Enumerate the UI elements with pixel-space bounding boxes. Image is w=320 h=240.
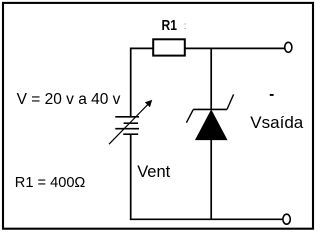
wire: left vertical from top corner down to battery + plate <box>130 48 132 117</box>
svg-text::: : <box>184 21 187 32</box>
svg-text:V = 20 v a 40 v: V = 20 v a 40 v <box>17 91 121 108</box>
terminal: output - (open circle, bottom right) <box>283 214 290 224</box>
wire: zener branch vertical from top wire down to cathode <box>210 48 212 110</box>
battery V (variable DC source, four plates) <box>115 117 139 134</box>
minus dash above Vsaida <box>270 94 274 96</box>
wire: zener branch vertical from anode down to bottom wire <box>210 140 212 220</box>
svg-text:R1: R1 <box>162 17 177 34</box>
wire: top-left segment from corner node to R1 left pin <box>130 47 154 49</box>
variable-source diagonal arrow <box>109 100 152 144</box>
wire: left vertical from battery - plate down to bottom corner <box>130 134 132 220</box>
zener diode D1 (cathode bar with bent ends + anode triangle) <box>186 94 233 139</box>
svg-text:Vent: Vent <box>137 163 170 181</box>
wire: top horizontal from R1 right pin through zener node to output terminal <box>185 47 285 49</box>
svg-text:R1 = 400Ω: R1 = 400Ω <box>15 175 86 191</box>
svg-text:Vsaída: Vsaída <box>250 113 303 132</box>
terminal: output + (open circle, top right) <box>285 42 292 52</box>
resistor R1 <box>153 39 185 55</box>
wire: bottom horizontal from left corner through zener node to output terminal <box>130 218 283 220</box>
